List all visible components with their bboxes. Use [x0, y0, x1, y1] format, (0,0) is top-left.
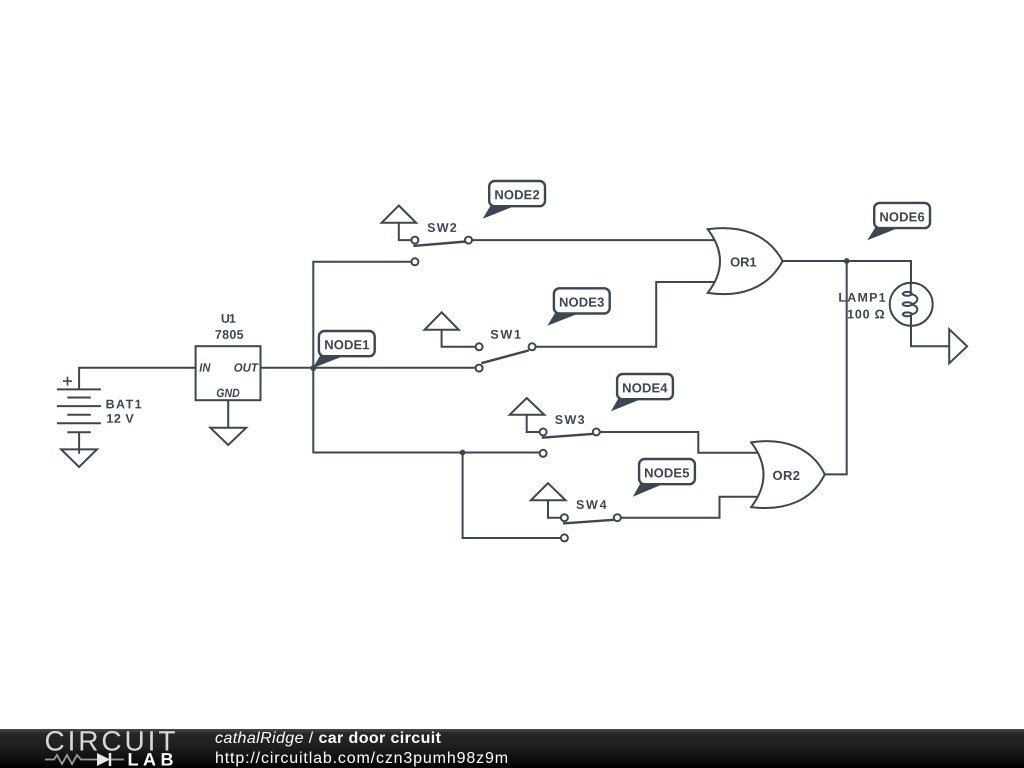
- svg-text:100 Ω: 100 Ω: [847, 307, 885, 321]
- svg-text:GND: GND: [216, 386, 240, 400]
- svg-text:IN: IN: [199, 361, 210, 375]
- svg-text:OUT: OUT: [234, 361, 260, 375]
- svg-text:BAT1: BAT1: [106, 397, 142, 411]
- svg-text:7805: 7805: [215, 328, 244, 342]
- svg-text:NODE4: NODE4: [622, 380, 668, 395]
- svg-text:SW4: SW4: [576, 498, 607, 512]
- svg-text:LAMP1: LAMP1: [838, 291, 885, 305]
- svg-text:NODE5: NODE5: [644, 465, 689, 480]
- svg-text:OR2: OR2: [773, 468, 801, 483]
- svg-text:OR1: OR1: [730, 255, 757, 270]
- svg-text:NODE1: NODE1: [324, 337, 369, 352]
- svg-text:NODE3: NODE3: [559, 295, 604, 310]
- svg-text:SW2: SW2: [427, 221, 457, 235]
- svg-text:SW3: SW3: [555, 413, 585, 427]
- svg-text:U1: U1: [221, 312, 236, 326]
- svg-text:SW1: SW1: [490, 328, 521, 342]
- svg-text:12 V: 12 V: [106, 412, 134, 426]
- svg-text:NODE6: NODE6: [879, 209, 924, 224]
- svg-text:LAB: LAB: [127, 750, 178, 768]
- svg-text:NODE2: NODE2: [494, 187, 539, 202]
